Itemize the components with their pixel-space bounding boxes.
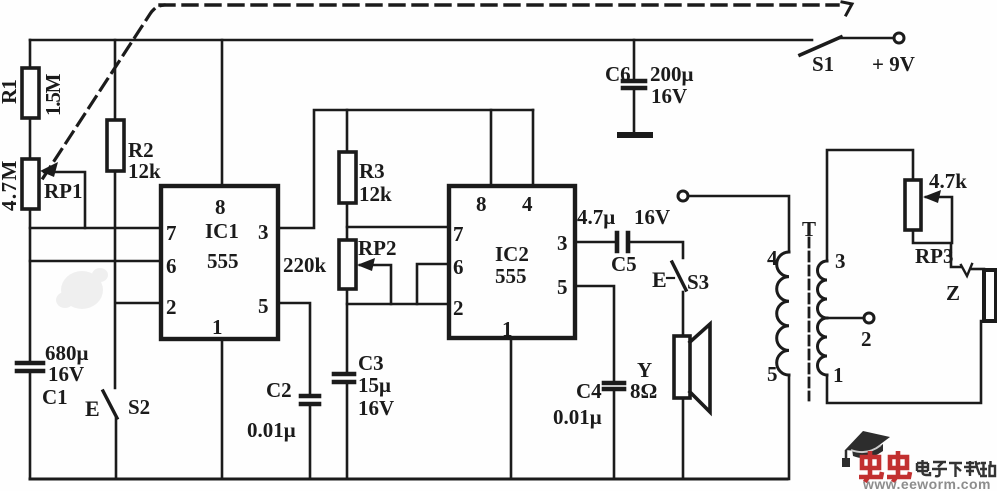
svg-text:7: 7 xyxy=(453,222,464,246)
wire C5 to S3 xyxy=(629,242,683,258)
svg-text:0.01μ: 0.01μ xyxy=(247,418,296,442)
svg-text:C5: C5 xyxy=(611,252,637,276)
svg-text:C6: C6 xyxy=(605,62,631,86)
wire C3 to bottom rail xyxy=(346,383,349,479)
svg-text:3: 3 xyxy=(258,220,269,244)
wire secondary bottom to Z xyxy=(827,321,981,403)
svg-text:8: 8 xyxy=(476,192,487,216)
wire secondary top to RP3 xyxy=(827,150,913,261)
switch S3 blade xyxy=(672,262,686,290)
wire IC1 pin1 to ground rail xyxy=(221,339,224,479)
svg-text:R1: R1 xyxy=(0,80,21,104)
wire IC2 pin4 drop xyxy=(532,110,535,186)
svg-text:5: 5 xyxy=(767,362,778,386)
svg-text:200μ: 200μ xyxy=(650,62,694,86)
speaker Y cone xyxy=(690,324,710,412)
svg-text:RP3: RP3 xyxy=(915,244,954,268)
wire IC2 pin8 drop xyxy=(490,110,493,186)
arrowhead RP3 wiper xyxy=(923,190,941,203)
svg-text:T: T xyxy=(802,217,816,241)
wire speaker to bottom rail xyxy=(682,398,685,479)
wire R2 bottom to S2 xyxy=(114,171,117,388)
svg-text:IC1: IC1 xyxy=(205,219,239,243)
svg-text:555: 555 xyxy=(495,264,527,288)
svg-text:C2: C2 xyxy=(266,378,292,402)
arrowhead RP1 wiper xyxy=(40,162,58,177)
wire center tap xyxy=(827,317,863,320)
svg-text:6: 6 xyxy=(166,254,177,278)
svg-text:4.7k: 4.7k xyxy=(929,169,967,193)
svg-text:6: 6 xyxy=(453,255,464,279)
svg-text:16V: 16V xyxy=(48,362,84,386)
terminal circle tap 2 xyxy=(864,313,874,323)
switch S1 blade xyxy=(800,37,841,55)
svg-text:1: 1 xyxy=(502,317,513,341)
wire IC1 pin7 line xyxy=(30,227,161,230)
wire C2 to bottom rail xyxy=(309,405,312,479)
terminal circle +9V xyxy=(894,33,904,43)
svg-text:1: 1 xyxy=(833,363,844,387)
svg-text:E: E xyxy=(85,396,100,421)
wire S1 to +9V terminal xyxy=(841,37,893,40)
potentiometer RP2 xyxy=(339,240,356,289)
capacitor C6 xyxy=(623,81,645,88)
wire IC1 pin8 riser xyxy=(221,40,224,186)
wire RP2 bottom to C3 xyxy=(346,289,349,373)
svg-text:5: 5 xyxy=(258,294,269,318)
capacitor C3 xyxy=(334,374,354,382)
svg-text:E: E xyxy=(652,267,667,292)
svg-text:R3: R3 xyxy=(359,159,385,183)
capacitor C5 xyxy=(617,233,628,251)
wire RP3 wiper xyxy=(926,197,952,243)
wire S3 to speaker xyxy=(682,292,685,336)
svg-text:8Ω: 8Ω xyxy=(630,379,657,403)
capacitor C4 xyxy=(604,383,624,389)
resistor R2 xyxy=(107,120,124,171)
svg-text:4: 4 xyxy=(767,246,778,270)
wire bottom rail ground return xyxy=(30,478,787,481)
watermark chongchong characters xyxy=(859,451,910,482)
jack V mark xyxy=(961,264,972,276)
wire R3 top riser xyxy=(346,110,349,152)
svg-text:4.7M: 4.7M xyxy=(0,159,21,211)
resistor R1 xyxy=(22,68,39,118)
svg-text:C1: C1 xyxy=(42,385,68,409)
svg-text:3: 3 xyxy=(557,231,568,255)
potentiometer RP3 xyxy=(905,180,921,230)
switch S2 blade xyxy=(103,391,117,418)
svg-text:2: 2 xyxy=(453,296,464,320)
dashed annotation diagonal to RP1 xyxy=(43,5,164,178)
svg-text:C4: C4 xyxy=(576,379,602,403)
svg-text:S1: S1 xyxy=(812,52,834,76)
wire RP1 bottom to C1 xyxy=(29,209,32,362)
wire V to Z xyxy=(972,268,984,271)
svg-text:7: 7 xyxy=(166,221,177,245)
svg-text:16V: 16V xyxy=(634,205,670,229)
svg-text:IC2: IC2 xyxy=(495,242,529,266)
switch S3 tick xyxy=(667,277,674,279)
svg-text:RP1: RP1 xyxy=(44,179,83,203)
earphone Z xyxy=(984,270,996,321)
svg-text:C3: C3 xyxy=(358,351,384,375)
wire R1 to RP1 xyxy=(29,118,32,159)
svg-text:+ 9V: + 9V xyxy=(872,52,915,76)
speaker Y body xyxy=(674,336,690,398)
svg-text:2: 2 xyxy=(861,327,872,351)
svg-text:5: 5 xyxy=(557,275,568,299)
svg-text:220k: 220k xyxy=(283,253,327,277)
svg-text:15μ: 15μ xyxy=(358,373,391,397)
wire RP2 wiper xyxy=(360,265,391,304)
dashed annotation hook xyxy=(842,2,852,15)
wire IC1 pin2 line xyxy=(116,302,161,305)
wire primary to bottom rail xyxy=(788,375,791,479)
op-amp timer IC2 body xyxy=(449,186,575,338)
potentiometer RP1 xyxy=(22,159,39,209)
svg-text:3: 3 xyxy=(835,249,846,273)
wire left vertical R1 top xyxy=(29,40,32,68)
wire node RP2/pin2 line xyxy=(347,303,449,306)
svg-text:1: 1 xyxy=(212,315,223,339)
wire RP1 wiper xyxy=(44,172,85,228)
wire IC1 pin6 line xyxy=(30,260,161,263)
op-amp timer IC1 body xyxy=(161,186,278,339)
wire S2 to bottom rail xyxy=(115,418,118,479)
svg-text:12k: 12k xyxy=(128,159,161,183)
svg-text:Z: Z xyxy=(946,281,960,305)
wire top rail +V xyxy=(30,39,812,42)
svg-text:S3: S3 xyxy=(687,270,709,294)
wire IC1 pin3 output xyxy=(278,110,533,228)
watermark graduation cap xyxy=(842,431,890,467)
svg-text:8: 8 xyxy=(215,195,226,219)
svg-text:16V: 16V xyxy=(358,396,394,420)
wire C4 to bottom rail xyxy=(613,390,616,479)
resistor R3 xyxy=(339,152,356,203)
dashed annotation line horizontal xyxy=(160,3,838,6)
wire IC1 pin5 to C2 xyxy=(278,303,310,395)
wire C6 to ground xyxy=(633,89,636,133)
svg-text:www.eeworm.com: www.eeworm.com xyxy=(862,476,991,491)
capacitor C2 xyxy=(301,396,319,404)
watermark site name glyphs xyxy=(917,460,995,477)
svg-text:12k: 12k xyxy=(359,182,392,206)
svg-text:16V: 16V xyxy=(651,84,687,108)
svg-text:S2: S2 xyxy=(128,395,150,419)
transformer T primary winding xyxy=(777,252,789,375)
terminal circle to transformer xyxy=(678,191,688,201)
svg-text:0.01μ: 0.01μ xyxy=(553,405,602,429)
arrowhead RP2 wiper xyxy=(357,258,375,271)
transformer core dashed xyxy=(808,238,811,400)
scan smudge xyxy=(56,268,108,309)
svg-text:4.7μ: 4.7μ xyxy=(577,205,615,229)
svg-text:2: 2 xyxy=(166,295,177,319)
capacitor C1 xyxy=(17,363,43,371)
wire IC2 pin3 to C5 xyxy=(575,241,616,244)
svg-text:4: 4 xyxy=(522,192,533,216)
wire RP3 bottom path xyxy=(913,230,961,267)
ground bar xyxy=(620,132,650,138)
wire terminal to transformer primary xyxy=(689,196,789,252)
wire IC2 pin1 to ground rail xyxy=(510,338,513,479)
wire IC2 pin7 line xyxy=(347,226,449,229)
svg-text:555: 555 xyxy=(207,249,239,273)
svg-text:RP2: RP2 xyxy=(358,236,397,260)
transformer T secondary top winding xyxy=(818,261,827,318)
transformer T secondary bottom winding xyxy=(818,318,827,375)
wire C1 to bottom rail xyxy=(29,373,32,479)
svg-text:1.5M: 1.5M xyxy=(41,73,65,116)
wire IC2 pin6 jog xyxy=(417,264,449,304)
wire R2 top lead xyxy=(114,40,117,120)
wire IC2 pin5 to C4 xyxy=(575,286,614,382)
wire R3 to RP2 xyxy=(346,203,349,240)
wire C6 top lead xyxy=(633,40,636,80)
